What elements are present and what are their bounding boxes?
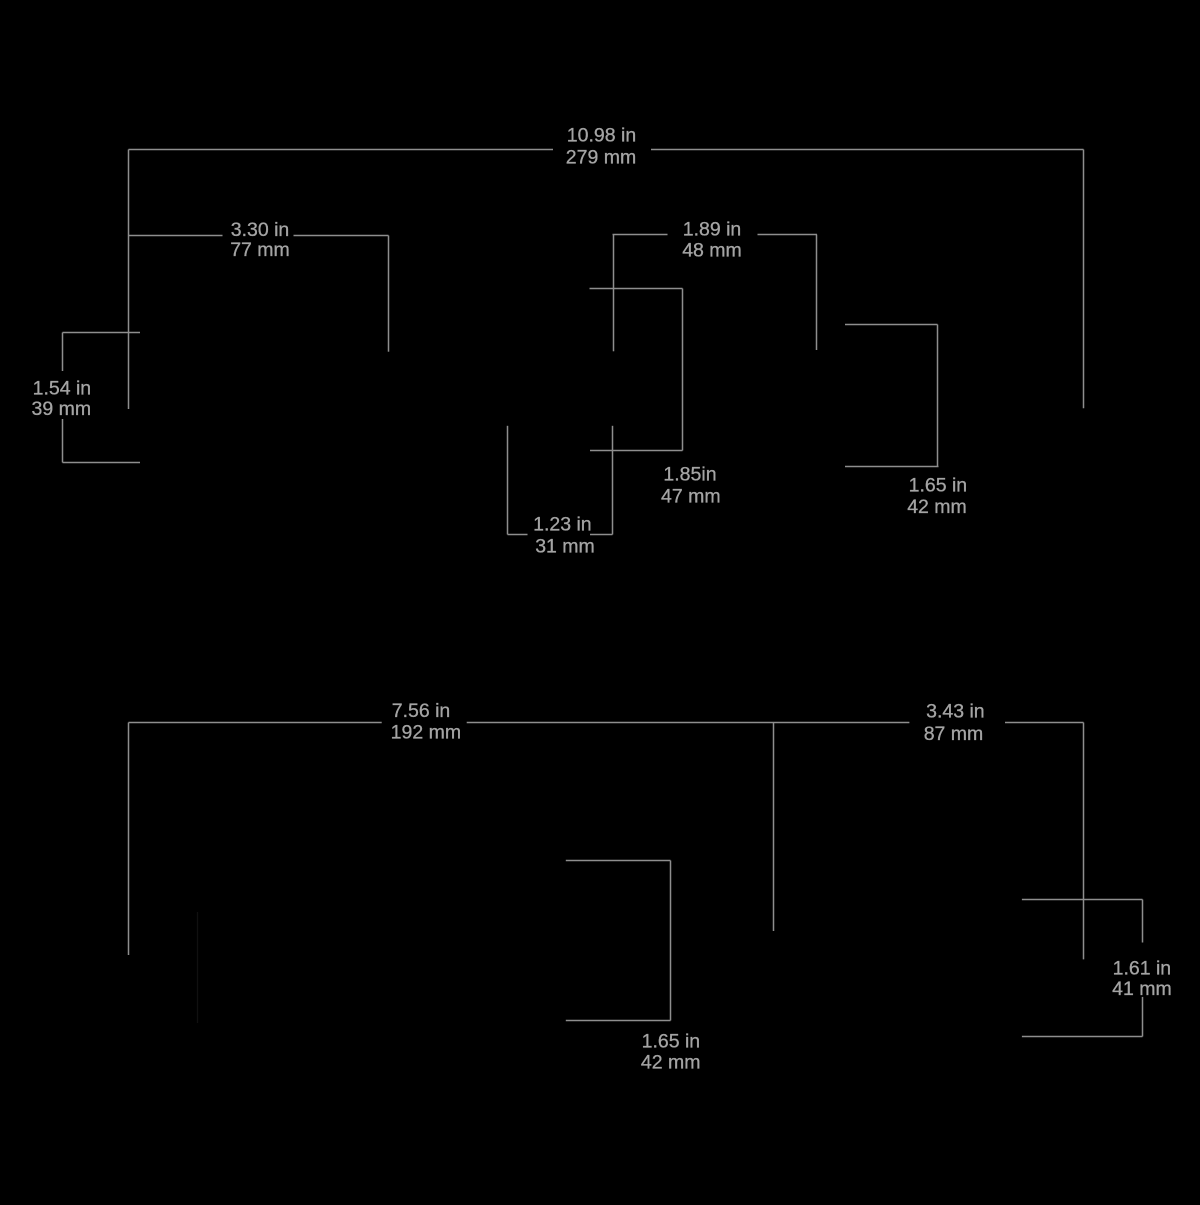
wire: dim 10.98in line left segment: [129, 149, 554, 151]
svg-text:1.23 in: 1.23 in: [533, 514, 592, 536]
svg-text:41 mm: 41 mm: [1112, 978, 1172, 1000]
wire: dim 1.65in bottom-middle vertical line: [670, 861, 672, 1021]
svg-text:1.65 in: 1.65 in: [909, 475, 968, 497]
wire: dim 1.65in top-right vertical line: [937, 325, 939, 467]
svg-text:1.89 in: 1.89 in: [683, 219, 742, 241]
svg-text:192 mm: 192 mm: [391, 722, 461, 744]
wire: dim 1.54in vertical lower segment: [62, 419, 64, 463]
svg-text:31 mm: 31 mm: [535, 536, 595, 558]
wire: dim 1.61in vertical upper segment: [1142, 900, 1144, 943]
wire: top extension of 1.85in: [590, 288, 683, 290]
node: faint subwoofer left edge: [197, 912, 199, 1023]
svg-text:1.61 in: 1.61 in: [1113, 958, 1172, 980]
wire: dim 1.89in line left segment: [613, 234, 668, 236]
wire: dim 3.30in line left segment: [129, 235, 223, 237]
wire: dim 3.43in line right segment: [1005, 722, 1084, 724]
svg-text:1.65 in: 1.65 in: [642, 1031, 701, 1053]
wire: dim 1.89in line right segment: [758, 234, 818, 236]
wire: right extension of 3.43in: [1083, 723, 1085, 960]
wire: shared dim line middle segment: [467, 722, 910, 724]
wire: left extension of 1.89in: [613, 235, 615, 352]
wire: middle extension between 7.56in and 3.43in: [773, 723, 775, 932]
svg-text:77 mm: 77 mm: [230, 239, 290, 261]
wire: bottom extension of 1.65in top-right: [845, 466, 939, 468]
wire: bottom extension of 1.85in: [590, 450, 683, 452]
wire: dim 3.30in line right segment: [294, 235, 389, 237]
wire: bottom extension of 1.61in: [1022, 1036, 1143, 1038]
wire: dim 1.85in vertical line: [682, 289, 684, 451]
wire: dim 1.61in vertical lower segment: [1142, 997, 1144, 1037]
wire: dim 1.23in line right segment: [590, 534, 613, 536]
svg-text:48 mm: 48 mm: [682, 240, 742, 262]
wire: dim 10.98in line right segment: [651, 149, 1084, 151]
wire: right extension of 1.23in: [612, 426, 614, 535]
svg-text:42 mm: 42 mm: [641, 1052, 701, 1074]
svg-text:7.56 in: 7.56 in: [392, 700, 451, 722]
svg-text:87 mm: 87 mm: [924, 723, 984, 745]
svg-text:39 mm: 39 mm: [31, 398, 91, 420]
wire: dim 1.54in vertical upper segment: [62, 333, 64, 372]
wire: left extension of 1.23in: [507, 426, 509, 535]
wire: bottom extension of 1.54in: [63, 462, 141, 464]
svg-text:3.30 in: 3.30 in: [231, 219, 290, 241]
svg-text:42 mm: 42 mm: [907, 496, 967, 518]
wire: left extension of 10.98in: [128, 150, 130, 410]
wire: right extension of 3.30in: [388, 236, 390, 352]
svg-text:1.54 in: 1.54 in: [33, 378, 92, 400]
svg-text:10.98 in: 10.98 in: [567, 125, 636, 147]
svg-text:47 mm: 47 mm: [661, 486, 721, 508]
wire: top extension of 1.54in: [63, 332, 141, 334]
wire: dim 1.23in line left segment: [508, 534, 528, 536]
wire: top extension of 1.65in bottom-middle: [566, 860, 671, 862]
svg-text:279 mm: 279 mm: [566, 147, 636, 169]
svg-text:3.43 in: 3.43 in: [926, 701, 985, 723]
svg-text:1.85in: 1.85in: [663, 464, 716, 486]
wire: bottom extension of 1.65in bottom-middle: [566, 1020, 671, 1022]
wire: right extension of 1.89in: [816, 235, 818, 351]
wire: left extension of 7.56in: [128, 723, 130, 956]
wire: right extension of 10.98in: [1083, 150, 1085, 409]
wire: top extension of 1.65in top-right: [845, 324, 938, 326]
wire: dim 7.56in line left segment: [129, 722, 382, 724]
wire: top extension of 1.61in: [1022, 899, 1143, 901]
